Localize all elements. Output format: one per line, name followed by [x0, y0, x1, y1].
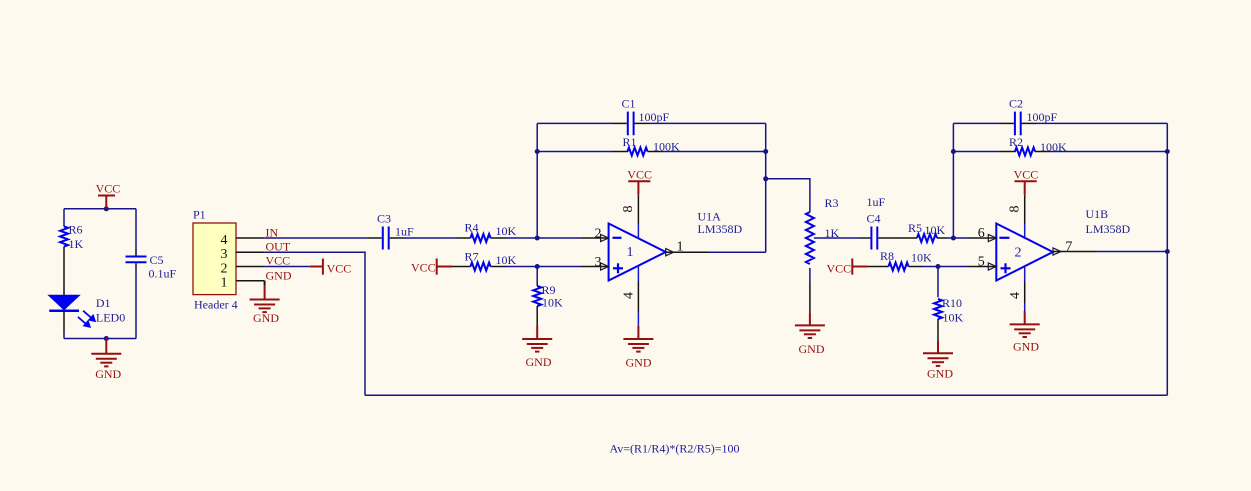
pin 4 — [637, 266, 639, 281]
svg-text:R1: R1 — [623, 135, 637, 149]
svg-text:D1: D1 — [96, 296, 111, 310]
svg-text:100K: 100K — [1040, 140, 1067, 154]
svg-text:GND: GND — [95, 367, 121, 381]
svg-text:100K: 100K — [653, 140, 680, 154]
pin 3 stub — [582, 266, 609, 268]
svg-text:R5: R5 — [908, 221, 922, 235]
svg-text:R7: R7 — [465, 250, 479, 264]
svg-text:Av=(R1/R4)*(R2/R5)=100: Av=(R1/R4)*(R2/R5)=100 — [610, 442, 740, 456]
resistor R6 — [60, 227, 68, 247]
U1A feedback right vertical wire — [765, 123, 767, 252]
op-amp U1B — [996, 224, 1053, 281]
pin 8 — [637, 195, 639, 224]
svg-text:VCC: VCC — [627, 168, 652, 182]
LED D1 — [63, 247, 65, 335]
wire R8 to pin5 — [922, 266, 967, 268]
wire R4 to pin2 — [506, 237, 582, 239]
svg-text:GND: GND — [927, 367, 953, 381]
svg-text:GND: GND — [266, 268, 292, 282]
wire R2 row — [953, 151, 1167, 153]
wire OUT row — [265, 252, 365, 395]
ground GND (R10) — [937, 340, 939, 353]
power port VCC (U1A pin8) — [628, 181, 650, 195]
svg-text:R3: R3 — [825, 196, 839, 210]
resistor R8 — [867, 266, 889, 268]
pin 4 (U1B) — [1024, 266, 1026, 281]
pin 2 — [236, 266, 265, 268]
ground GND (U1A pin4) — [637, 326, 639, 339]
node junction branch to R3 — [763, 176, 768, 181]
svg-text:100pF: 100pF — [1027, 110, 1058, 124]
svg-text:10K: 10K — [943, 310, 964, 324]
pin 5 stub — [967, 266, 996, 268]
svg-text:10K: 10K — [496, 224, 517, 238]
resistor R5 — [894, 237, 917, 239]
node junction R1 left — [535, 149, 540, 154]
pin 1 output stub — [666, 251, 709, 253]
capacitor C5 — [126, 257, 147, 263]
svg-text:R10: R10 — [942, 296, 962, 310]
U1B feedback right vertical wire — [1166, 123, 1168, 395]
ground GND (U1B pin4) — [1024, 311, 1026, 324]
wire right vertical upper — [135, 209, 137, 249]
wire branch to R3 — [766, 179, 810, 212]
svg-text:2: 2 — [595, 226, 602, 241]
wire right vertical lower — [135, 270, 137, 339]
svg-text:C3: C3 — [377, 212, 391, 226]
svg-text:5: 5 — [978, 254, 985, 269]
wire U1B output to right vertical — [1096, 251, 1167, 253]
svg-text:C4: C4 — [867, 212, 881, 226]
capacitor C3 — [368, 237, 403, 239]
node junction R1 right — [763, 149, 768, 154]
svg-text:1K: 1K — [69, 237, 84, 251]
resistor R3 (pot) — [806, 212, 814, 264]
ground GND (R9) — [536, 326, 538, 339]
resistor R4 — [456, 237, 471, 239]
svg-text:2: 2 — [1015, 245, 1022, 260]
pin 3 — [236, 251, 265, 253]
svg-text:VCC: VCC — [827, 262, 852, 276]
ground GND (left) — [105, 339, 107, 354]
pin 6 stub — [967, 237, 996, 239]
svg-text:1: 1 — [221, 276, 228, 291]
wire R1 row — [537, 151, 766, 153]
wire VCC row — [265, 266, 310, 268]
node junction R8/R10 — [936, 264, 941, 269]
resistor R2 — [1000, 151, 1016, 153]
svg-text:P1: P1 — [193, 208, 206, 222]
node junction R2 right — [1165, 149, 1170, 154]
wire left vertical below LED — [63, 334, 65, 339]
node junction R2 left — [951, 149, 956, 154]
svg-text:Header 4: Header 4 — [194, 298, 238, 312]
resistor R9 — [536, 267, 538, 287]
wire R7 to pin3 — [506, 266, 582, 268]
svg-text:0.1uF: 0.1uF — [149, 267, 177, 281]
node junction R5/feedback — [951, 236, 956, 241]
svg-text:GND: GND — [253, 311, 279, 325]
svg-text:VCC: VCC — [266, 254, 291, 268]
wire R5 to pin6 — [948, 237, 967, 239]
svg-text:LM358D: LM358D — [698, 222, 743, 236]
wire left loop bottom — [64, 338, 136, 340]
node junction R7/R9 — [535, 264, 540, 269]
svg-text:8: 8 — [1007, 206, 1022, 213]
svg-text:C2: C2 — [1009, 97, 1023, 111]
capacitor C2 — [1000, 122, 1036, 124]
wire U1A output to feedback — [709, 251, 766, 253]
connector P1 Header 4 — [193, 223, 236, 295]
svg-text:R6: R6 — [69, 223, 83, 237]
pin 2 stub — [582, 237, 609, 239]
wire IN row to C3 — [265, 237, 368, 239]
node junction U1B output — [1165, 249, 1170, 254]
svg-text:VCC: VCC — [327, 262, 352, 276]
capacitor C4 — [861, 237, 894, 239]
wire C2 row — [953, 122, 1167, 124]
svg-text:R4: R4 — [465, 221, 479, 235]
pin 8 (U1B) — [1024, 195, 1026, 224]
svg-text:10K: 10K — [925, 223, 946, 237]
resistor R1 — [612, 151, 628, 153]
op-amp U1A — [609, 224, 666, 281]
svg-text:2: 2 — [221, 261, 228, 276]
node junction R4/feedback — [535, 236, 540, 241]
pin 7 output stub — [1053, 251, 1096, 253]
pin 4 — [236, 237, 265, 239]
node junction bottom — [104, 336, 109, 341]
wire C1 row — [537, 122, 766, 124]
power port VCC (R8) — [852, 259, 867, 275]
power port VCC (R7) — [437, 259, 452, 275]
wire R3 tap to C4 — [814, 237, 861, 239]
wire bottom return — [365, 394, 1167, 396]
node junction VCC top — [104, 206, 109, 211]
pin 1 — [236, 280, 265, 282]
U1A feedback left vertical wire — [536, 123, 538, 238]
svg-text:3: 3 — [221, 247, 228, 262]
svg-text:U1B: U1B — [1086, 207, 1109, 221]
resistor R10 — [937, 267, 939, 298]
svg-text:R8: R8 — [880, 249, 894, 263]
svg-text:3: 3 — [595, 255, 602, 270]
power port VCC (left) — [98, 196, 115, 209]
svg-text:VCC: VCC — [411, 261, 436, 275]
svg-text:R2: R2 — [1009, 135, 1023, 149]
svg-text:C1: C1 — [622, 97, 636, 111]
svg-text:10K: 10K — [542, 296, 563, 310]
power port VCC (U1B pin8) — [1015, 181, 1037, 195]
svg-text:4: 4 — [221, 233, 228, 248]
svg-text:1uF: 1uF — [867, 195, 886, 209]
svg-text:100pF: 100pF — [639, 110, 670, 124]
svg-text:GND: GND — [626, 356, 652, 370]
power port VCC (header) — [310, 259, 323, 275]
svg-text:7: 7 — [1065, 240, 1072, 255]
resistor R7 — [452, 266, 471, 268]
svg-text:1: 1 — [627, 245, 634, 260]
svg-text:VCC: VCC — [1014, 168, 1039, 182]
svg-text:LM358D: LM358D — [1086, 222, 1131, 236]
svg-text:4: 4 — [1008, 292, 1023, 299]
ground GND (R3) — [809, 312, 811, 325]
left LED circuit — [64, 209, 136, 339]
svg-text:GND: GND — [1013, 340, 1039, 354]
U1B feedback left vertical wire — [952, 123, 954, 238]
svg-text:C5: C5 — [150, 253, 164, 267]
capacitor C1 — [613, 122, 649, 124]
wire left loop top — [64, 208, 136, 210]
ground GND (header pin1) — [264, 281, 266, 300]
svg-text:LED0: LED0 — [96, 311, 125, 325]
svg-text:4: 4 — [622, 292, 637, 299]
svg-text:IN: IN — [266, 225, 279, 239]
svg-text:6: 6 — [978, 226, 985, 241]
svg-text:10K: 10K — [496, 253, 517, 267]
svg-text:1: 1 — [677, 239, 684, 254]
wire C3 to R4 — [403, 237, 456, 239]
svg-text:1uF: 1uF — [395, 225, 414, 239]
svg-text:OUT: OUT — [266, 239, 291, 253]
svg-text:GND: GND — [526, 355, 552, 369]
svg-text:8: 8 — [621, 206, 636, 213]
wire R3 bottom — [809, 268, 811, 282]
svg-text:GND: GND — [799, 342, 825, 356]
svg-text:10K: 10K — [911, 250, 932, 264]
wire left vertical upper — [63, 209, 65, 227]
svg-text:VCC: VCC — [96, 181, 121, 195]
